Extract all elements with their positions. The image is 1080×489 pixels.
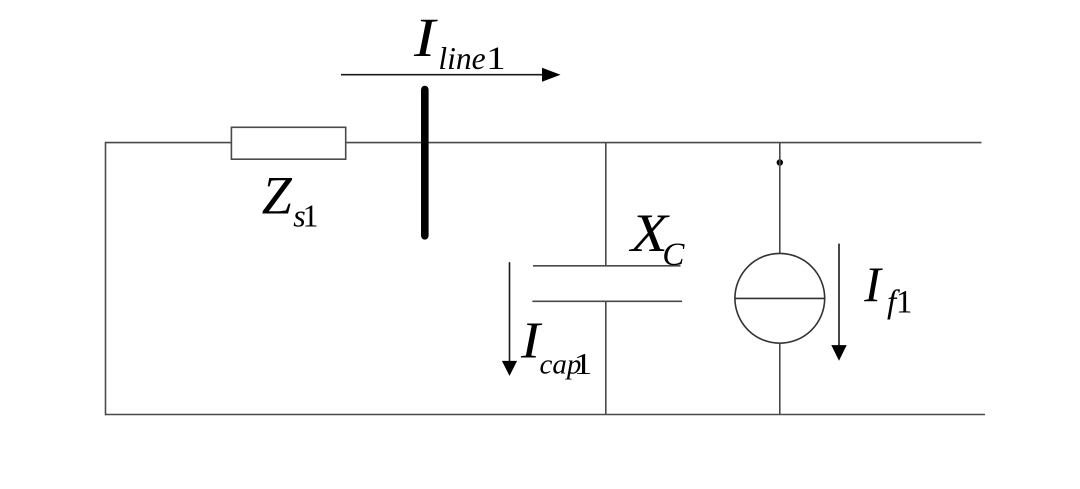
svg-text:I: I: [413, 7, 439, 68]
svg-text:1: 1: [896, 285, 913, 321]
svg-text:1: 1: [574, 347, 593, 381]
wire: capacitor branch upper segment: [605, 143, 607, 266]
svg-text:1: 1: [486, 39, 505, 76]
label Icap1: [520, 311, 592, 381]
current source If1 (circle with horizontal bar): [735, 253, 825, 343]
svg-text:line: line: [438, 41, 485, 76]
svg-text:1: 1: [303, 198, 319, 234]
arrow Icap1 (capacitor current direction, pointing down): [502, 262, 517, 376]
wire: fault branch lower segment: [779, 343, 781, 414]
resistor Zs1 (source impedance box): [231, 127, 345, 159]
label Zs1: [262, 166, 319, 234]
arrow If1 (fault current direction, pointing down): [831, 244, 846, 361]
svg-text:C: C: [662, 237, 685, 273]
label XC: [629, 204, 686, 273]
wire: capacitor branch lower segment: [605, 301, 607, 414]
wire: fault branch upper segment: [779, 143, 781, 254]
node dot: junction on fault branch: [777, 159, 783, 165]
capacitor XC bottom plate: [532, 300, 682, 302]
bus bar (thick vertical measurement bus): [421, 90, 429, 236]
capacitor XC top plate: [533, 265, 681, 267]
wire: top bus conductor from left corner to right end: [106, 142, 982, 144]
label If1: [863, 256, 912, 321]
svg-text:I: I: [863, 256, 883, 312]
label Iline1: [413, 7, 506, 76]
wire: left vertical side: [105, 142, 107, 416]
svg-text:Z: Z: [262, 166, 293, 226]
arrow Iline1 (line current direction, pointing right): [341, 68, 561, 82]
wire: bottom return conductor: [105, 414, 985, 416]
